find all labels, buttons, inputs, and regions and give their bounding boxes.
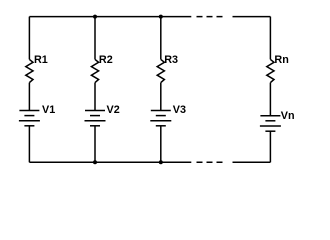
svg-text:R1: R1	[34, 54, 48, 66]
svg-text:R2: R2	[99, 54, 113, 66]
svg-text:R3: R3	[164, 54, 178, 66]
svg-text:V2: V2	[107, 104, 120, 116]
svg-text:Rn: Rn	[274, 54, 288, 66]
svg-text:V1: V1	[42, 104, 55, 116]
svg-text:V3: V3	[173, 104, 186, 116]
svg-text:Vn: Vn	[281, 110, 295, 122]
